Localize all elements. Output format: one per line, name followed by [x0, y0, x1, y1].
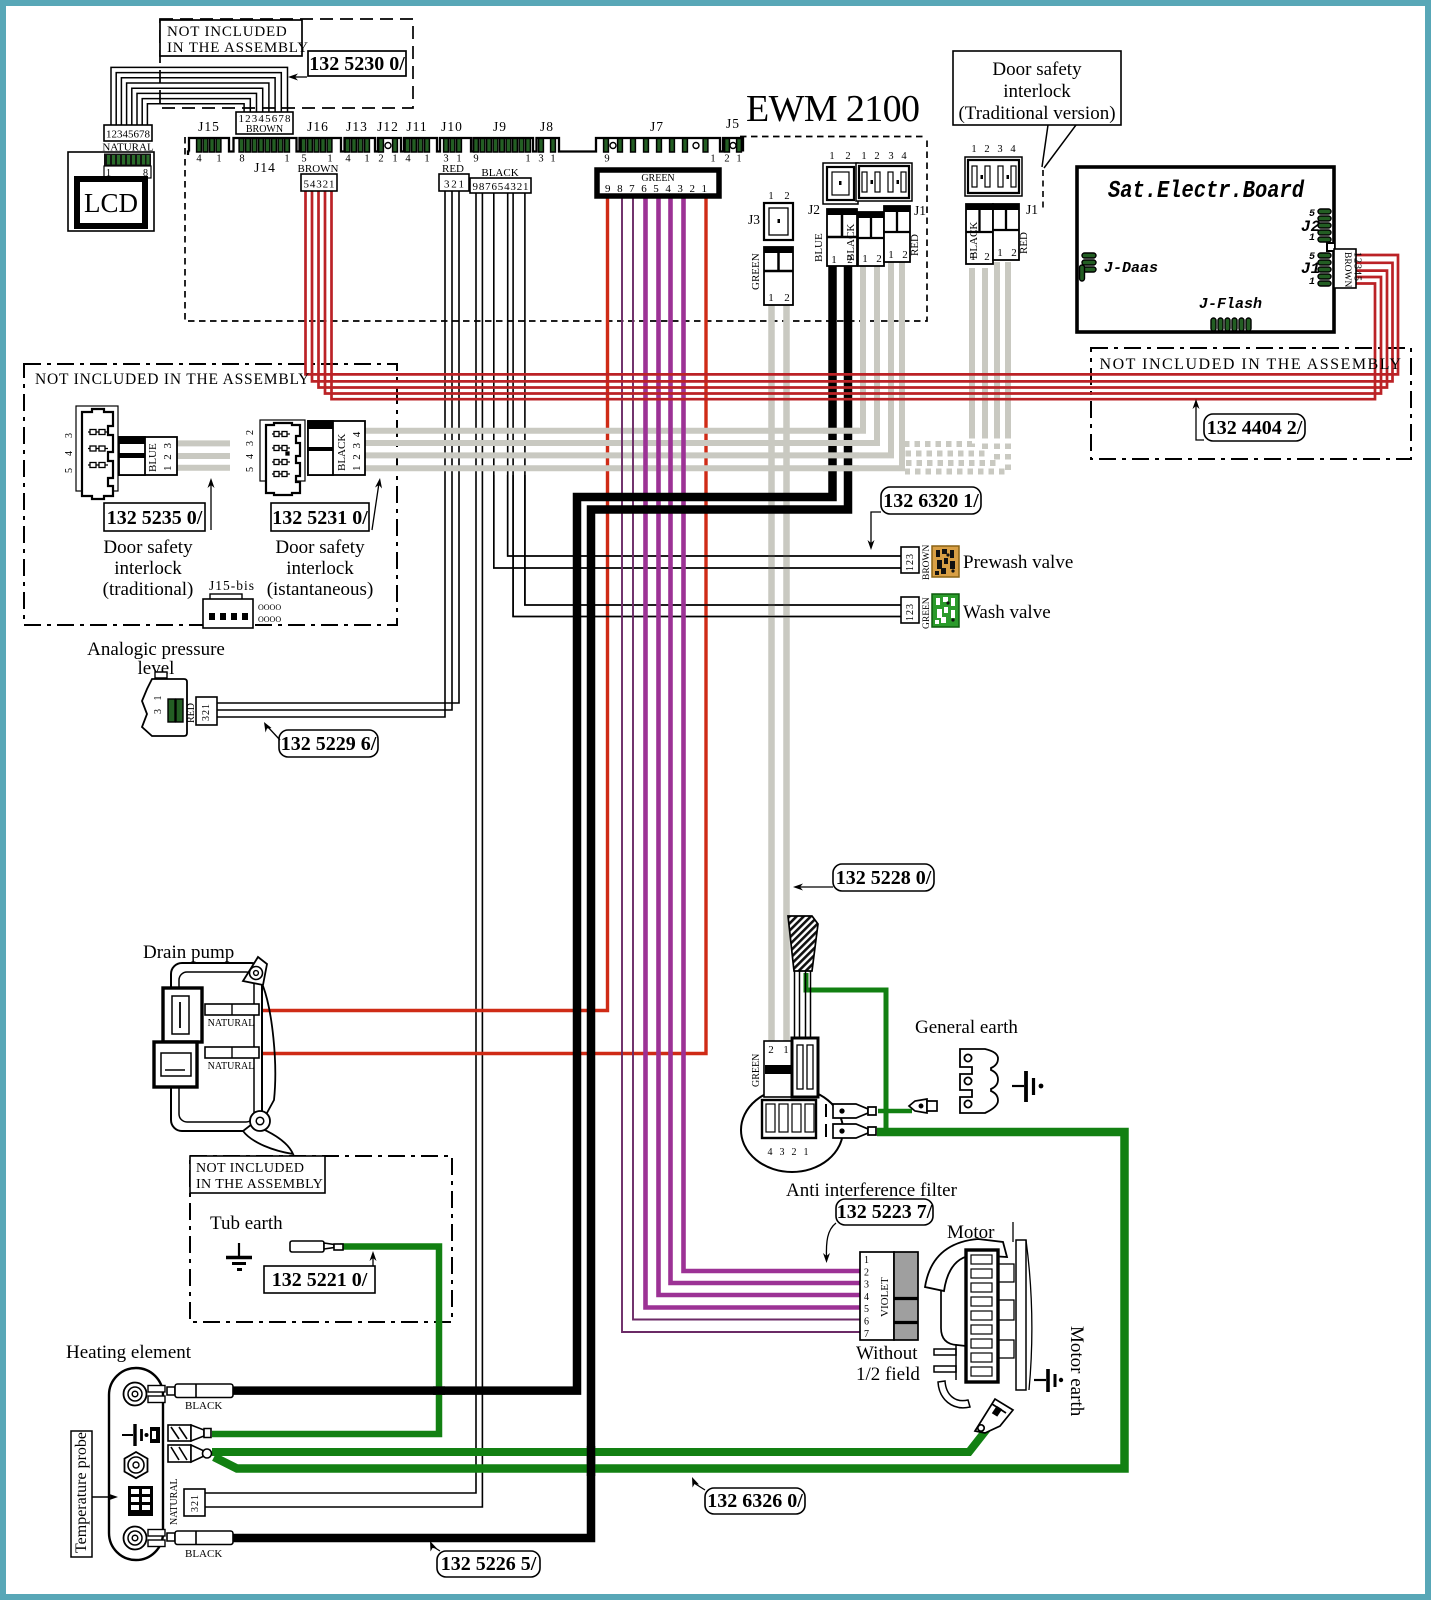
right NOT INCLUDED dash-dot box: [1091, 348, 1411, 459]
svg-text:RED: RED: [442, 163, 464, 175]
svg-text:RED: RED: [1018, 232, 1030, 254]
svg-text:J5: J5: [726, 116, 740, 131]
svg-text:132 5230 0/: 132 5230 0/: [309, 53, 405, 75]
wire J7 pin5 violet to VIOLET pin4: [659, 196, 862, 1295]
svg-text:BLACK: BLACK: [845, 224, 857, 261]
svg-text:9: 9: [473, 154, 478, 165]
svg-text:NOT INCLUDED: NOT INCLUDED: [167, 24, 288, 40]
svg-text:3: 3: [64, 433, 75, 438]
svg-text:Anti interference filter: Anti interference filter: [786, 1180, 958, 1201]
tub earth crimp terminal: [290, 1241, 343, 1252]
svg-text:Analogic pressure: Analogic pressure: [87, 639, 225, 660]
svg-text:7: 7: [864, 1329, 869, 1340]
wire J7 pin7 thin violet to VIOLET pin6: [633, 196, 861, 1320]
svg-text:(istantaneous): (istantaneous): [267, 579, 374, 600]
svg-text:1: 1: [216, 154, 221, 165]
svg-text:J12: J12: [377, 119, 399, 134]
plug BLACK 1 2 3 4: [308, 421, 365, 475]
svg-text:4: 4: [901, 151, 907, 162]
svg-text:Tub earth: Tub earth: [210, 1213, 283, 1234]
prewash valve icon: [932, 546, 959, 577]
svg-text:J16: J16: [307, 119, 329, 134]
svg-text:12345: 12345: [1352, 252, 1363, 282]
gray wire J1 plug pin3 to interlock BLACK plug: [365, 262, 891, 455]
svg-text:5: 5: [1309, 252, 1315, 263]
connector BROWN 12345: [1334, 249, 1363, 288]
svg-text:General earth: General earth: [915, 1017, 1018, 1038]
svg-text:1: 1: [804, 1147, 809, 1158]
svg-text:2: 2: [984, 251, 990, 263]
svg-text:3: 3: [864, 1280, 869, 1291]
svg-text:2: 2: [874, 151, 879, 162]
connector J8: [538, 119, 555, 165]
svg-text:BLACK: BLACK: [336, 434, 348, 471]
connector J10: [441, 119, 463, 165]
svg-text:132 5223 7/: 132 5223 7/: [837, 1201, 933, 1223]
top terminal rings: [124, 1383, 166, 1406]
connector LCD 12345678 NATURAL: [102, 125, 154, 154]
svg-text:J-Flash: J-Flash: [1199, 296, 1262, 313]
connector J13: [345, 119, 370, 165]
heating bottom BLACK crimp terminal: [167, 1531, 233, 1545]
svg-text:1: 1: [1309, 233, 1315, 244]
svg-text:BROWN: BROWN: [922, 545, 932, 581]
svg-text:OOOO: OOOO: [258, 603, 281, 612]
wire J9 to prewash valve (lower): [494, 191, 901, 568]
svg-text:Door safety: Door safety: [992, 59, 1082, 80]
hex nut: [125, 1452, 148, 1478]
heating earth symbol: [122, 1424, 149, 1446]
svg-text:2: 2: [784, 292, 790, 304]
svg-text:1: 1: [424, 154, 429, 165]
label NOT INCLUDED IN THE ASSEMBLY (top): [160, 20, 309, 56]
valve wires redrawn over gray: [494, 475, 901, 617]
pump body outer: [171, 963, 262, 1131]
dashed box top-left assembly: [24, 19, 1411, 1322]
plug BLUE 1 2 3: [119, 437, 177, 475]
svg-text:Door safety: Door safety: [103, 537, 193, 558]
svg-text:1: 1: [1309, 277, 1315, 288]
door interlock switch (istantaneous): [260, 420, 305, 495]
svg-text:EWM 2100: EWM 2100: [746, 88, 920, 130]
svg-text:IN THE ASSEMBLY: IN THE ASSEMBLY: [167, 40, 309, 56]
svg-text:1 2 3 4: 1 2 3 4: [351, 430, 363, 471]
svg-text:J10: J10: [441, 119, 463, 134]
tub earth dashed box: [190, 1156, 452, 1322]
svg-text:J3: J3: [748, 212, 760, 227]
prewash valve connector 123 BROWN: [901, 545, 932, 581]
svg-text:J15-bis: J15-bis: [209, 578, 255, 593]
svg-text:1: 1: [997, 247, 1003, 259]
svg-text:Drain pump: Drain pump: [143, 942, 234, 963]
svg-text:132 5221 0/: 132 5221 0/: [272, 1269, 368, 1291]
svg-text:GREEN: GREEN: [922, 597, 932, 629]
bottom mounting circle: [250, 1111, 270, 1131]
hatched plug: [788, 916, 818, 971]
connector J5: [724, 116, 741, 165]
svg-text:3 1: 3 1: [153, 693, 164, 715]
motor earth spade (45deg): [975, 1399, 1013, 1433]
svg-text:4: 4: [64, 451, 75, 456]
svg-text:2: 2: [864, 1267, 869, 1278]
svg-text:NOT INCLUDED: NOT INCLUDED: [196, 1161, 304, 1176]
svg-text:2: 2: [378, 154, 383, 165]
black wire over green crossings: [587, 1446, 596, 1476]
gray wires over black verticals: [823, 431, 859, 469]
svg-text:321: 321: [190, 1494, 201, 1512]
svg-text:BROWN: BROWN: [1342, 252, 1352, 288]
svg-text:1: 1: [768, 191, 773, 202]
main board dashed box: [185, 137, 927, 322]
svg-text:BLACK: BLACK: [185, 1400, 222, 1412]
svg-text:(Traditional version): (Traditional version): [958, 103, 1115, 124]
svg-text:132 5226 5/: 132 5226 5/: [441, 1553, 537, 1575]
connector J12: [377, 119, 399, 165]
motor handle bracket: [925, 1239, 1007, 1291]
svg-text:6: 6: [864, 1317, 869, 1328]
svg-text:2: 2: [724, 154, 729, 165]
svg-text:J13: J13: [346, 119, 368, 134]
plug BLACK 1 2 (interlock): [966, 204, 993, 264]
brown wire 1: [332, 191, 1376, 399]
svg-text:2: 2: [792, 1147, 797, 1158]
connector J9 plug box BLACK 987654321: [470, 167, 531, 193]
gray wires of traditional interlock J1 (solid part then dashed): [905, 262, 1008, 472]
earth spade terminal: [909, 1099, 937, 1113]
svg-text:2: 2: [1011, 247, 1017, 259]
connector J9: [473, 119, 530, 165]
connector J7 plug box GREEN 987654321: [597, 170, 719, 196]
svg-text:interlock: interlock: [114, 558, 182, 579]
svg-text:54321: 54321: [304, 179, 335, 191]
svg-text:2: 2: [845, 151, 850, 162]
terminal boxes: [205, 1004, 259, 1015]
svg-text:3: 3: [888, 151, 893, 162]
svg-text:BROWN: BROWN: [246, 124, 283, 135]
svg-text:321: 321: [201, 703, 212, 721]
door interlock switch (traditional): [76, 406, 118, 499]
gray wire J3 GREEN plug pin2 down to filter connector: [783, 305, 790, 1042]
svg-text:1: 1: [284, 154, 289, 165]
brown wire 2: [325, 191, 1381, 394]
svg-text:NATURAL: NATURAL: [208, 1018, 255, 1029]
svg-text:(traditional): (traditional): [103, 579, 194, 600]
svg-text:12345678: 12345678: [106, 129, 151, 141]
Temperature probe label: [71, 1431, 118, 1557]
svg-text:1: 1: [829, 151, 834, 162]
svg-text:4: 4: [864, 1292, 869, 1303]
gray wires from BLUE interlock plug (cut): [177, 440, 230, 446]
svg-text:1: 1: [710, 154, 715, 165]
connector J11: [405, 119, 430, 165]
svg-text:3: 3: [538, 154, 543, 165]
svg-text:J8: J8: [540, 119, 554, 134]
svg-text:9: 9: [604, 154, 609, 165]
connector J2 (sat): [1301, 209, 1331, 244]
bottom terminal rings: [124, 1527, 166, 1550]
svg-text:Motor earth: Motor earth: [1066, 1326, 1087, 1417]
wash valve icon: [932, 594, 959, 627]
svg-text:321: 321: [444, 179, 464, 191]
svg-text:2: 2: [784, 191, 789, 202]
connector J-Daas: [1080, 253, 1159, 281]
svg-text:1: 1: [364, 154, 369, 165]
label 132 5226 5/: [430, 1541, 540, 1577]
connector J-Flash: [1199, 296, 1262, 331]
svg-text:1: 1: [736, 154, 741, 165]
svg-text:132 5231 0/: 132 5231 0/: [272, 507, 368, 529]
svg-text:132 4404 2/: 132 4404 2/: [1207, 417, 1303, 439]
svg-text:NATURAL: NATURAL: [208, 1061, 255, 1072]
svg-text:4: 4: [345, 154, 351, 165]
svg-text:5: 5: [864, 1304, 869, 1315]
svg-text:BLUE: BLUE: [147, 443, 159, 472]
svg-text:1: 1: [888, 249, 894, 261]
svg-text:2: 2: [245, 430, 256, 435]
svg-text:GREEN: GREEN: [750, 253, 762, 290]
motor side tabs: [998, 1264, 1014, 1282]
edge notch between J2 and J1: [1327, 243, 1334, 251]
filter stub marks: [825, 1104, 827, 1137]
svg-text:IN THE ASSEMBLY: IN THE ASSEMBLY: [196, 1177, 323, 1192]
svg-text:1: 1: [550, 154, 555, 165]
brown wire 4: [312, 191, 1393, 381]
svg-text:Sat.Electr.Board: Sat.Electr.Board: [1108, 178, 1305, 205]
wire J10 pin1 to pressure sensor: [217, 191, 459, 703]
heating element body: [109, 1368, 163, 1560]
svg-text:J9: J9: [493, 119, 507, 134]
connector J16: [301, 119, 333, 165]
svg-text:J2: J2: [808, 202, 820, 217]
general earth bracket: [960, 1049, 998, 1113]
svg-text:LCD: LCD: [84, 188, 138, 218]
green link to general earth spade: [878, 1109, 912, 1114]
label 132 5235 0/: [104, 478, 215, 531]
svg-text:J15: J15: [198, 119, 220, 134]
green wire from hatched plug to filter junction: [806, 973, 886, 1129]
svg-text:Temperature probe: Temperature probe: [73, 1432, 90, 1553]
GREEN 2 1 connector: [751, 1038, 818, 1097]
connector J14: [239, 139, 290, 176]
svg-text:1: 1: [861, 151, 866, 162]
plug BLACK 1 2: [858, 212, 884, 266]
svg-text:interlock: interlock: [286, 558, 354, 579]
svg-text:NATURAL: NATURAL: [169, 1478, 180, 1525]
pressure sensor body: [142, 672, 217, 736]
svg-text:132 6320 1/: 132 6320 1/: [883, 490, 979, 512]
gray wire J3 GREEN plug pin1 down to filter connector: [768, 305, 775, 1042]
VIOLET motor connector: [860, 1252, 918, 1340]
svg-text:BLUE: BLUE: [813, 233, 825, 262]
general earth symbol: [1012, 1071, 1043, 1102]
motor main connector ladder: [966, 1250, 998, 1382]
svg-text:BLACK: BLACK: [185, 1548, 222, 1560]
label 132 5223 7/: [823, 1199, 933, 1263]
svg-text:1/2 field: 1/2 field: [856, 1364, 920, 1385]
motor right pulley strip: [1012, 1222, 1014, 1242]
svg-text:BLACK: BLACK: [481, 167, 518, 179]
wire J9 to heating NATURAL pin (upper): [205, 191, 476, 1493]
left connector blocks: [163, 988, 202, 1042]
wire J9 to wash valve (lower): [513, 191, 901, 617]
gray wire J1 plug pin4 to interlock BLACK plug: [365, 262, 902, 468]
svg-text:1: 1: [970, 251, 976, 263]
svg-text:J7: J7: [650, 119, 664, 134]
motor earth symbol: [1034, 1369, 1063, 1392]
svg-text:BROWN: BROWN: [298, 163, 339, 175]
connector J7: [604, 119, 716, 165]
motor bottom prongs: [934, 1349, 956, 1355]
svg-text:1: 1: [864, 1255, 869, 1266]
wire J7 pin3 violet to VIOLET pin2: [684, 196, 862, 1271]
svg-text:987654321: 987654321: [605, 183, 713, 195]
svg-text:132 5229 6/: 132 5229 6/: [281, 733, 377, 755]
svg-text:4: 4: [245, 454, 256, 459]
svg-text:1 2 3: 1 2 3: [162, 442, 174, 472]
svg-text:4: 4: [196, 154, 202, 165]
filter upper spade terminal: [833, 1104, 876, 1118]
wire J10 pin3 to pressure sensor: [217, 191, 445, 717]
svg-text:4: 4: [405, 154, 411, 165]
svg-text:Wash valve: Wash valve: [963, 602, 1051, 623]
label 132 5228 0/: [793, 864, 934, 891]
wire BLUE plug pin1 to heating top BLACK terminal: [232, 266, 833, 1391]
svg-text:Prewash valve: Prewash valve: [963, 552, 1073, 573]
thin black wires from hatched plug to filter connector: [795, 971, 811, 1040]
svg-text:Without: Without: [856, 1343, 918, 1364]
wire J7 pin8 thin violet to VIOLET pin7: [622, 196, 861, 1332]
svg-text:1: 1: [525, 154, 530, 165]
wire J7 pin6 violet to VIOLET pin5: [646, 196, 862, 1308]
filter lower spade terminal: [833, 1124, 876, 1138]
svg-text:GREEN: GREEN: [751, 1054, 762, 1087]
label 132 6320 1/: [868, 487, 982, 550]
svg-text:3: 3: [997, 144, 1002, 155]
LCD ribbon bundle of 8 wires: [111, 67, 288, 126]
svg-text:5: 5: [245, 467, 256, 472]
connector J16 plug box BROWN 54321: [298, 163, 339, 191]
svg-text:1: 1: [971, 144, 976, 155]
label 132 5231 0/: [271, 478, 382, 531]
heating upper green spade: [168, 1425, 211, 1441]
svg-text:J-Daas: J-Daas: [1104, 260, 1158, 277]
svg-text:2: 2: [876, 253, 882, 265]
connector J10 plug box RED 321: [439, 163, 469, 191]
svg-text:8: 8: [239, 154, 244, 165]
svg-text:132 5228 0/: 132 5228 0/: [836, 867, 932, 889]
svg-text:J1: J1: [914, 203, 926, 218]
svg-text:NOT INCLUDED IN THE ASSEMBLY: NOT INCLUDED IN THE ASSEMBLY: [35, 371, 310, 388]
pump mounting fin right: [262, 986, 275, 1122]
wire J10 pin2 to pressure sensor: [217, 191, 452, 710]
label 132 5221 0/: [264, 1251, 377, 1293]
wire J9 to prewash valve (upper): [508, 191, 901, 556]
svg-text:123: 123: [905, 603, 916, 621]
gray wire J1 plug pin2 to interlock BLACK plug: [365, 266, 877, 443]
svg-text:4: 4: [768, 1147, 773, 1158]
svg-text:NOT INCLUDED IN THE ASSEMBLY: NOT INCLUDED IN THE ASSEMBLY: [1100, 356, 1403, 373]
svg-text:Door safety: Door safety: [275, 537, 365, 558]
svg-text:2: 2: [902, 249, 908, 261]
svg-text:123: 123: [905, 553, 916, 571]
connector J15-bis: [203, 578, 281, 628]
svg-text:1: 1: [768, 292, 774, 304]
gray wire J1 plug pin1 to interlock BLACK plug: [365, 266, 863, 431]
wash valve connector 123 GREEN: [901, 597, 932, 629]
svg-text:1: 1: [783, 1044, 789, 1056]
wire J9 to heating NATURAL pin (lower): [205, 191, 482, 1507]
svg-text:Heating element: Heating element: [66, 1342, 192, 1363]
svg-text:VIOLET: VIOLET: [879, 1277, 891, 1317]
dashed tail line under door-safety callout: [1042, 170, 1044, 212]
green wire anti-interference filter to general earth loop to heating: [214, 1132, 1125, 1469]
wire J9 to wash valve (upper): [525, 191, 901, 605]
svg-text:3: 3: [780, 1147, 785, 1158]
green wire heating lower spade to motor earth spade: [212, 1429, 987, 1452]
left NOT INCLUDED dashed box (door interlocks): [24, 364, 397, 625]
plug RED 1 2 (interlock): [993, 204, 1019, 260]
heating top BLACK crimp terminal: [167, 1384, 233, 1398]
svg-text:J1: J1: [1026, 202, 1038, 217]
wire BLUE plug pin2 to heating bottom BLACK terminal: [232, 266, 848, 1538]
plug GREEN 1 2: [764, 247, 793, 305]
label 132 6326 0/: [692, 1477, 805, 1514]
connector hole circles: [385, 143, 391, 149]
plug BLUE 1 2: [827, 209, 857, 266]
green wire tub earth to heating upper spade: [212, 1247, 439, 1435]
filter body: [741, 1088, 843, 1172]
connector J1 (sat): [1301, 252, 1331, 288]
svg-text:J14: J14: [254, 160, 276, 175]
wire J7 pin9 red to drain pump upper terminal: [261, 196, 608, 1011]
filter connector block: [762, 1100, 816, 1138]
svg-text:3: 3: [245, 441, 256, 446]
svg-text:1: 1: [862, 253, 868, 265]
svg-text:1: 1: [392, 154, 397, 165]
LCD module: [68, 152, 154, 231]
svg-text:1: 1: [831, 254, 837, 266]
svg-text:132 5235 0/: 132 5235 0/: [107, 507, 203, 529]
svg-text:J11: J11: [406, 119, 427, 134]
svg-text:4: 4: [1010, 144, 1016, 155]
wire J7 pin1 red to drain pump lower terminal: [261, 196, 706, 1054]
brown wire 3: [319, 191, 1388, 388]
svg-text:interlock: interlock: [1003, 81, 1071, 102]
svg-text:OOOO: OOOO: [258, 615, 281, 624]
tub earth symbol: [226, 1243, 252, 1270]
svg-text:2: 2: [984, 144, 989, 155]
connector J15: [196, 119, 221, 165]
plug RED 1 2: [884, 206, 910, 262]
svg-text:987654321: 987654321: [473, 181, 529, 193]
label 132 4404 2/: [1193, 399, 1306, 441]
svg-text:132 6326 0/: 132 6326 0/: [707, 1490, 803, 1512]
brown wire 5: [306, 191, 1399, 374]
label 132 5230 0/: [288, 51, 406, 81]
connector J14 plug box 12345678 BROWN: [236, 112, 293, 135]
svg-text:RED: RED: [909, 234, 921, 256]
svg-text:5: 5: [1309, 209, 1315, 220]
svg-text:2: 2: [768, 1044, 774, 1056]
temperature probe connector: [128, 1486, 153, 1516]
svg-text:5: 5: [64, 468, 75, 473]
label 132 5229 6/: [264, 722, 378, 757]
heating lower green spade: [168, 1445, 212, 1462]
wire J7 pin4 violet to VIOLET pin3: [671, 196, 862, 1283]
